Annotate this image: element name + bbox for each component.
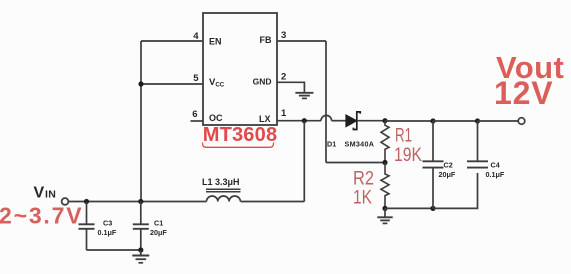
op-amp U1 MT3608 IC body bbox=[203, 13, 277, 125]
node junction R2 bottom / ground rail bbox=[382, 206, 387, 211]
value label MT3608 bbox=[203, 124, 278, 146]
pin 6 label bbox=[192, 109, 197, 120]
node junction C3 top bbox=[84, 199, 89, 204]
output terminal circle bbox=[518, 118, 525, 125]
pin OC label bbox=[209, 113, 223, 123]
ground symbol input side bbox=[132, 250, 149, 263]
svg-text:20μF: 20μF bbox=[439, 170, 456, 179]
svg-text:R2: R2 bbox=[353, 169, 374, 190]
wire pin4 EN to left vertical bbox=[141, 40, 203, 42]
svg-text:C4: C4 bbox=[491, 160, 500, 169]
wire LX down to inductor rail bbox=[303, 121, 305, 202]
pin GND label bbox=[253, 76, 272, 86]
pin 4 label bbox=[193, 31, 199, 42]
pin FB label bbox=[260, 35, 272, 45]
svg-text:D1: D1 bbox=[327, 140, 336, 149]
svg-text:R1: R1 bbox=[395, 126, 412, 147]
wire pin6 OC stub bbox=[191, 120, 204, 122]
wire hop to diode anode bbox=[332, 120, 346, 122]
value label C1 20uF bbox=[150, 219, 167, 238]
wire diode cathode to R1 node bbox=[358, 120, 385, 122]
pin LX label bbox=[259, 114, 271, 124]
diode D1 schottky cathode bar bbox=[353, 112, 360, 130]
value label R2 bbox=[353, 169, 374, 190]
ground symbol output side bbox=[377, 208, 392, 223]
svg-text:20μF: 20μF bbox=[150, 228, 167, 237]
svg-text:C2: C2 bbox=[444, 160, 453, 169]
wire FB horizontal to R1/R2 junction bbox=[326, 162, 385, 164]
value label 19K bbox=[394, 145, 422, 166]
svg-text:19K: 19K bbox=[394, 145, 422, 166]
svg-text:C1: C1 bbox=[154, 219, 163, 228]
wire pin1 LX to hop bbox=[277, 120, 321, 122]
wire output rail to C2 bbox=[385, 120, 433, 122]
node junction C2 top bbox=[430, 118, 435, 123]
wire input rail bbox=[69, 201, 207, 203]
wire ground rail C2 to C4 bbox=[433, 173, 478, 208]
value label L1 3.3uH bbox=[202, 177, 240, 187]
wire C3 bottom to C1 bottom bbox=[87, 249, 141, 251]
value label C3 0.1uF bbox=[98, 219, 117, 238]
wire FB vertical down bbox=[325, 41, 327, 163]
value label C2 20uF bbox=[439, 160, 456, 179]
wire pin5 Vcc to left vertical bbox=[141, 83, 203, 85]
svg-text:1: 1 bbox=[281, 108, 287, 119]
svg-text:5: 5 bbox=[193, 73, 199, 84]
ground symbol at GND pin bbox=[295, 93, 313, 99]
svg-text:2~3.7V: 2~3.7V bbox=[0, 203, 83, 229]
svg-text:GND: GND bbox=[253, 76, 272, 86]
svg-text:L1 3.3μH: L1 3.3μH bbox=[202, 177, 240, 187]
svg-text:MT3608: MT3608 bbox=[203, 124, 278, 146]
resistor R2 bbox=[381, 163, 389, 209]
capacitor C4 bbox=[467, 121, 488, 168]
svg-text:3: 3 bbox=[281, 30, 286, 41]
inductor L1 bbox=[206, 189, 241, 201]
svg-text:EN: EN bbox=[209, 36, 222, 46]
svg-text:LX: LX bbox=[259, 114, 271, 124]
node junction C1 / left vertical bbox=[138, 199, 143, 204]
value label C4 0.1uF bbox=[486, 160, 505, 179]
node junction R1/R2/FB bbox=[382, 160, 387, 165]
svg-text:SM340A: SM340A bbox=[345, 140, 375, 149]
pin 3 label bbox=[281, 30, 286, 41]
svg-text:1K: 1K bbox=[353, 188, 372, 209]
wire inductor to LX drop bbox=[241, 201, 305, 203]
pin Vcc label bbox=[209, 77, 225, 89]
value label D1 SM340A bbox=[327, 140, 374, 149]
wire hop over FB line bbox=[321, 115, 332, 120]
value label Vout bbox=[496, 50, 564, 85]
svg-text:C3: C3 bbox=[103, 219, 112, 228]
wire ground rail to C2 bottom bbox=[385, 207, 433, 209]
pin 1 label bbox=[281, 108, 287, 119]
input terminal circle bbox=[62, 198, 69, 205]
value label 2~3.7V bbox=[0, 203, 83, 229]
diode D1 triangle bbox=[346, 115, 357, 127]
pin EN label bbox=[209, 36, 222, 46]
capacitor C2 bbox=[423, 121, 444, 208]
resistor R1 bbox=[381, 121, 389, 163]
svg-text:OC: OC bbox=[209, 113, 223, 123]
node junction Vcc/EN vertical bbox=[138, 81, 143, 86]
capacitor C1 bbox=[133, 202, 149, 251]
pin 2 label bbox=[281, 72, 286, 83]
value label 1K bbox=[353, 188, 372, 209]
capacitor C3 bbox=[79, 202, 95, 251]
node junction LX / inductor drop bbox=[302, 118, 307, 123]
svg-text:FB: FB bbox=[260, 35, 272, 45]
node junction C2 bottom bbox=[430, 206, 435, 211]
svg-text:2: 2 bbox=[281, 72, 286, 83]
node junction C4 top bbox=[475, 118, 480, 123]
value label 12V bbox=[494, 75, 553, 111]
wire C4 to output terminal bbox=[478, 120, 519, 122]
node VIN label bbox=[34, 185, 57, 202]
svg-text:0.1μF: 0.1μF bbox=[98, 228, 117, 237]
node junction input ground bbox=[138, 247, 143, 252]
svg-text:6: 6 bbox=[192, 109, 197, 120]
wire left vertical x=141.5 bbox=[140, 41, 142, 202]
svg-text:12V: 12V bbox=[494, 75, 553, 111]
node junction diode/R1/output bbox=[382, 118, 387, 123]
pin 5 label bbox=[193, 73, 199, 84]
bracket under MT3608 bbox=[203, 143, 274, 148]
svg-text:0.1μF: 0.1μF bbox=[486, 170, 505, 179]
wire pin2 GND stub bbox=[277, 82, 304, 92]
value label R1 bbox=[395, 126, 412, 147]
wire C2 to C4 bbox=[433, 120, 478, 122]
wire pin3 FB to right bbox=[277, 40, 326, 42]
